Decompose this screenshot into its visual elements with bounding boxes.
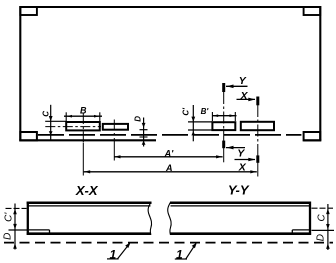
section line X (vertical centerline of tab 4) (257, 105, 259, 150)
svg-text:Y-Y: Y-Y (228, 182, 250, 197)
dimension C (45, 105, 66, 141)
tab 1 (weld plate) (66, 122, 100, 130)
svg-text:C': C' (181, 107, 190, 116)
seam designation leader 1 (X-X) (107, 242, 131, 261)
section line Y (vertical centerline of tab 3) (223, 92, 225, 143)
tab 1 horizontal centerline (45, 126, 101, 128)
svg-text:B: B (80, 105, 87, 115)
svg-text:X: X (239, 90, 248, 102)
section Y-Y plate body (170, 202, 311, 235)
section mark Y bottom (224, 141, 246, 160)
dimension A (84, 171, 257, 173)
svg-text:C: C (317, 214, 328, 222)
plate outline (top view) (19, 7, 321, 140)
corner mark bottom-right (304, 132, 321, 140)
svg-text:1: 1 (176, 247, 183, 261)
svg-text:X-X: X-X (75, 183, 99, 198)
section X-X backing strip (29, 230, 50, 233)
dimension C (section Y-Y) (312, 204, 335, 250)
svg-text:D: D (3, 233, 14, 240)
svg-text:Y: Y (239, 75, 247, 87)
dimension D (section Y-Y) (326, 243, 330, 249)
section X-X plate body (27, 202, 152, 235)
svg-text:A: A (165, 163, 173, 173)
section X-X break line (148, 202, 151, 235)
svg-text:1: 1 (109, 247, 116, 261)
svg-text:D: D (134, 116, 143, 122)
section Y-Y backing strip (292, 230, 309, 233)
dimension C' (188, 105, 212, 141)
centerline of weld seam (dash-dot, bottom) (4, 242, 333, 244)
svg-text:A': A' (164, 148, 174, 158)
svg-text:B': B' (201, 107, 210, 116)
tab 1 vertical centerline (82, 113, 84, 143)
section mark X top (237, 90, 258, 105)
svg-text:C': C' (4, 212, 15, 222)
section Y-Y break line (168, 202, 171, 235)
dimension B' (212, 112, 236, 121)
section mark Y top (224, 75, 248, 92)
corner mark top-left (20, 7, 37, 15)
dimension C' (section X-X) (6, 204, 28, 250)
dimension D (140, 118, 148, 147)
dimension D (section X-X) (13, 243, 17, 249)
corner mark bottom-left (20, 132, 37, 140)
svg-text:Y: Y (237, 148, 245, 160)
svg-text:D: D (316, 234, 327, 241)
tab 3 (212, 122, 235, 130)
tab 2 vertical centerline (113, 120, 115, 144)
tab 4 (241, 122, 274, 130)
dimension B (64, 112, 102, 121)
hidden seam line (dashed, bottom of plate) (38, 134, 301, 136)
section mark X bottom (235, 155, 258, 173)
seam designation leader 2 (Y-Y) (175, 243, 197, 262)
corner mark top-right (304, 7, 321, 15)
svg-text:C: C (41, 111, 50, 117)
dimension A' (114, 156, 223, 158)
tab 2 (103, 124, 128, 130)
